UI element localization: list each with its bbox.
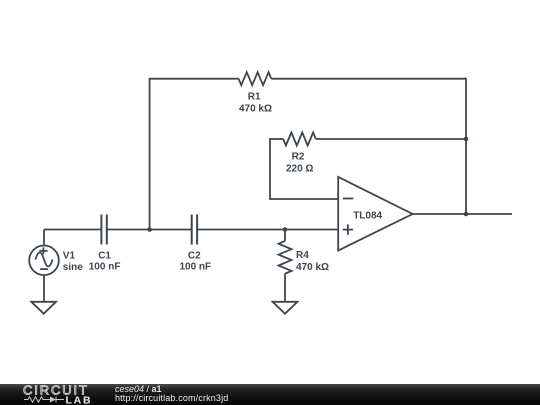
svg-text:R4: R4 [296,250,309,261]
svg-text:R1: R1 [248,92,261,103]
wire C2 to op-amp non-inverting input [197,229,338,231]
footer url text [115,393,228,403]
ground below R4 [273,302,298,314]
footer title text [115,384,162,394]
wire R1 right horizontal [271,78,466,80]
svg-text:TL084: TL084 [353,211,382,222]
wire C1 to C2 [107,229,192,231]
op-amp U1 TL084 [338,177,412,251]
svg-text:C2: C2 [188,251,201,262]
label R1 [239,92,272,115]
node junction at R4 top [283,227,288,232]
node junction at C1/C2 midpoint [147,227,152,232]
resistor R1 [239,72,272,85]
wire R2 left stub [270,138,283,140]
voltage source V1 [29,230,59,302]
label C2 [179,251,211,273]
resistor R4 [279,230,292,302]
label V1 [63,250,83,272]
node junction at output/feedback [464,212,469,217]
svg-text:100 nF: 100 nF [179,261,211,272]
svg-text:C1: C1 [98,251,111,262]
wire inverting input horizontal [269,198,338,200]
op-amp non-inverting input plus symbol [343,224,353,234]
CircuitLab logo [0,384,100,405]
wire R2 right horizontal [316,138,466,140]
wire output [413,213,512,215]
footer bar [0,384,540,405]
label R4 [296,250,329,273]
resistor R2 [283,133,316,146]
label C1 [89,251,121,273]
svg-text:220 Ω: 220 Ω [286,164,313,175]
svg-text:sine: sine [63,262,83,273]
capacitor C2 [192,215,197,245]
ground below V1 [31,302,56,314]
op-amp inverting input minus symbol [343,198,353,200]
wire R1 left horizontal [149,78,239,80]
svg-text:470 kΩ: 470 kΩ [296,262,329,273]
wire top-left vertical (node A to R1 left) [149,79,151,230]
svg-text:LAB: LAB [66,394,92,405]
label R2 [286,152,313,175]
svg-text:V1: V1 [63,250,76,261]
wire main line V1 to C1 [44,229,101,231]
wire right vertical (R1 to output node) [465,78,467,214]
node junction at R2/feedback [464,137,469,142]
svg-text:470 kΩ: 470 kΩ [239,103,272,114]
svg-text:100 nF: 100 nF [89,261,121,272]
svg-text:R2: R2 [292,152,305,163]
capacitor C1 [101,215,106,245]
wire R2 left vertical down to inverting input [269,138,271,199]
